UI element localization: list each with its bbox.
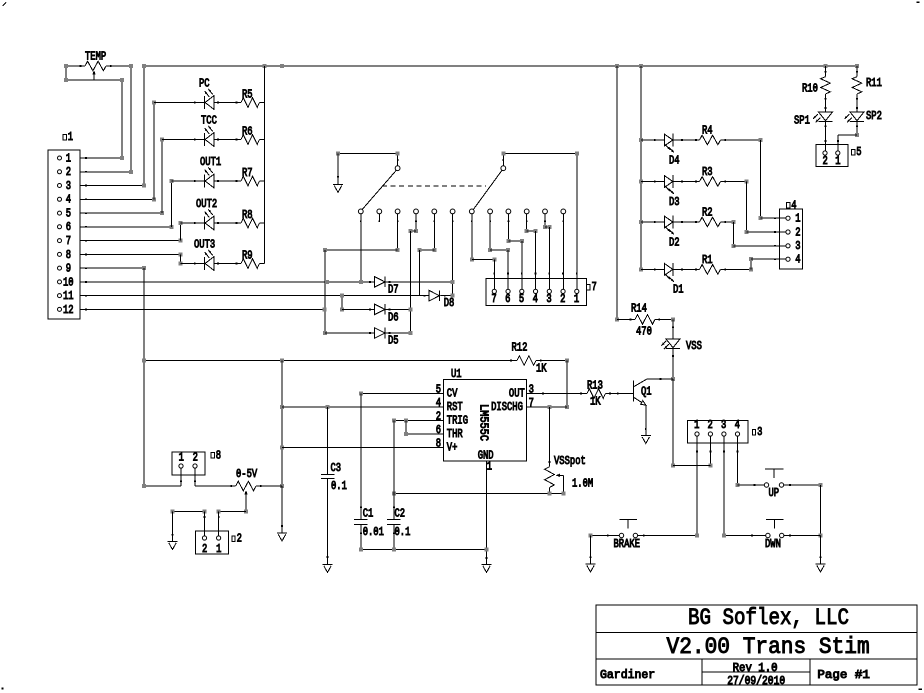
svg-text:2: 2 [708,419,713,432]
svg-text:0.1: 0.1 [395,526,411,539]
svg-text:0.1: 0.1 [331,480,347,493]
svg-text:BG Soflex, LLC: BG Soflex, LLC [688,605,849,631]
svg-text:1.0M: 1.0M [572,477,593,490]
svg-text:3: 3 [546,293,551,306]
svg-text:3: 3 [529,383,534,396]
svg-text:D7: D7 [388,284,399,297]
svg-text:R8: R8 [242,209,253,222]
svg-text:11: 11 [63,290,74,303]
svg-text:1: 1 [68,131,73,144]
svg-text:2: 2 [823,155,828,168]
svg-text:470: 470 [636,325,652,338]
svg-text:R9: R9 [242,250,253,263]
svg-text:D4: D4 [669,154,680,167]
svg-text:PC: PC [199,78,210,91]
svg-text:8: 8 [216,449,221,462]
svg-text:R12: R12 [512,342,528,355]
svg-text:1: 1 [487,461,492,474]
svg-text:R4: R4 [702,125,713,138]
svg-text:4: 4 [735,419,740,432]
svg-text:OUT3: OUT3 [194,239,215,252]
svg-text:BRAKE: BRAKE [614,538,641,551]
svg-text:2: 2 [202,543,207,556]
svg-text:1: 1 [835,155,840,168]
svg-text:R1: R1 [702,254,713,267]
svg-text:OUT: OUT [509,387,525,400]
svg-text:C1: C1 [363,507,374,520]
svg-text:R3: R3 [702,166,713,179]
svg-text:R13: R13 [587,380,603,393]
svg-text:R5: R5 [242,89,253,102]
svg-text:TEMP: TEMP [85,51,106,64]
svg-text:CV: CV [447,387,458,400]
svg-text:R11: R11 [866,77,882,90]
svg-text:VSSpot: VSSpot [554,455,586,468]
svg-text:2: 2 [795,226,800,239]
svg-text:SP1: SP1 [794,114,810,127]
svg-text:VSS: VSS [686,340,702,353]
svg-text:4: 4 [791,199,796,212]
svg-text:8: 8 [436,437,441,450]
svg-text:R14: R14 [631,302,647,315]
svg-text:1K: 1K [536,363,547,376]
svg-text:OUT2: OUT2 [196,198,217,211]
svg-text:0-5V: 0-5V [236,468,257,481]
svg-text:DISCHG: DISCHG [491,401,523,414]
svg-text:U1: U1 [451,368,462,381]
svg-text:D2: D2 [669,236,680,249]
svg-text:Page #1: Page #1 [817,669,870,682]
svg-text:4: 4 [436,397,441,410]
svg-text:UP: UP [769,487,780,500]
svg-text:6: 6 [436,424,441,437]
svg-text:6: 6 [505,293,510,306]
svg-text:D5: D5 [388,335,399,348]
svg-text:7: 7 [592,281,597,294]
svg-text:4: 4 [795,254,800,267]
svg-text:DWN: DWN [765,538,781,551]
svg-text:5: 5 [66,208,71,221]
svg-text:1: 1 [795,213,800,226]
svg-text:V2.00 Trans Stim: V2.00 Trans Stim [667,634,870,660]
svg-text:D8: D8 [444,297,455,310]
svg-text:4: 4 [533,293,538,306]
svg-text:5: 5 [856,146,861,159]
svg-text:V+: V+ [447,441,458,454]
svg-text:10: 10 [63,276,74,289]
svg-text:2: 2 [237,533,242,546]
svg-text:2: 2 [560,293,565,306]
svg-text:LM555C: LM555C [477,404,490,441]
svg-text:1: 1 [216,543,221,556]
svg-text:1: 1 [179,451,184,464]
svg-text:12: 12 [63,304,74,317]
svg-text:27/09/2010: 27/09/2010 [727,675,785,688]
svg-text:6: 6 [66,221,71,234]
svg-text:3: 3 [795,240,800,253]
svg-text:0.01: 0.01 [363,526,384,539]
svg-text:Q1: Q1 [641,386,652,399]
svg-text:3: 3 [66,180,71,193]
svg-text:C2: C2 [395,507,406,520]
svg-text:2: 2 [193,451,198,464]
svg-text:C3: C3 [331,462,342,475]
svg-text:OUT1: OUT1 [200,156,221,169]
svg-text:2: 2 [436,410,441,423]
svg-text:Gardiner: Gardiner [600,669,655,682]
svg-text:TCC: TCC [201,115,217,128]
svg-text:TRIG: TRIG [447,414,468,427]
svg-text:8: 8 [66,249,71,262]
svg-text:1: 1 [66,152,71,165]
svg-text:R7: R7 [242,167,253,180]
svg-text:9: 9 [66,263,71,276]
svg-text:D1: D1 [673,284,684,297]
svg-text:5: 5 [519,293,524,306]
svg-text:7: 7 [66,235,71,248]
svg-text:3: 3 [721,419,726,432]
svg-text:1: 1 [574,293,579,306]
svg-text:R6: R6 [242,126,253,139]
svg-text:SP2: SP2 [866,110,882,123]
svg-text:1: 1 [694,419,699,432]
svg-text:D6: D6 [388,312,399,325]
svg-text:1K: 1K [590,396,601,409]
svg-text:7: 7 [529,397,534,410]
svg-text:3: 3 [757,426,762,439]
svg-text:4: 4 [66,194,71,207]
svg-text:RST: RST [447,401,463,414]
svg-text:2: 2 [66,166,71,179]
svg-text:R10: R10 [802,83,818,96]
svg-text:THR: THR [447,428,463,441]
svg-text:D3: D3 [669,196,680,209]
svg-text:7: 7 [491,293,496,306]
svg-text:Rev 1.0: Rev 1.0 [733,662,778,675]
svg-text:R2: R2 [702,207,713,220]
svg-text:5: 5 [436,383,441,396]
